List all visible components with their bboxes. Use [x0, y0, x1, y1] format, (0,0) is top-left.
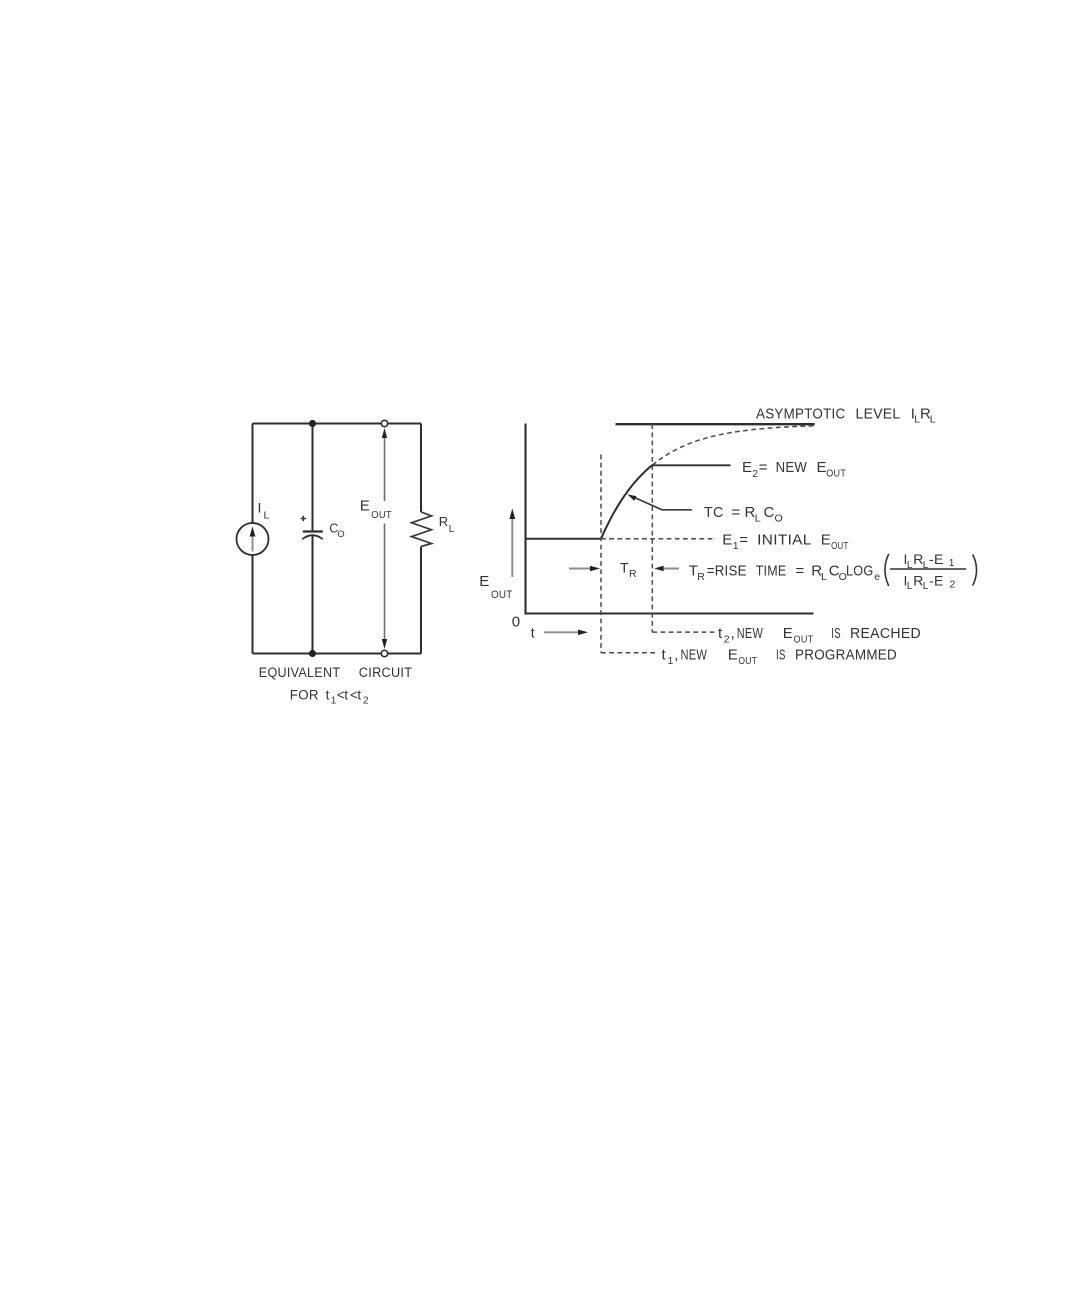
svg-text:L: L	[755, 513, 761, 525]
svg-text:R: R	[439, 514, 449, 529]
svg-text:IS: IS	[831, 625, 841, 642]
svg-text:L: L	[923, 581, 929, 592]
svg-text:L: L	[907, 581, 913, 592]
svg-text:R: R	[629, 568, 637, 580]
svg-text:1: 1	[331, 696, 337, 707]
svg-text:1: 1	[733, 540, 739, 552]
svg-text:NEW: NEW	[681, 646, 708, 663]
svg-text:T: T	[620, 560, 629, 576]
svg-text:E: E	[479, 573, 489, 590]
svg-text:,: ,	[674, 646, 678, 663]
svg-text:t: t	[662, 646, 667, 663]
svg-text:-E: -E	[929, 572, 944, 588]
svg-text:L: L	[930, 414, 936, 426]
svg-text:t: t	[357, 687, 361, 702]
svg-text:t: t	[531, 625, 535, 641]
svg-text:OUT: OUT	[738, 655, 757, 667]
svg-text:E: E	[742, 459, 752, 476]
svg-text:2: 2	[950, 578, 956, 590]
svg-text:IS: IS	[776, 646, 786, 663]
svg-text:OUT: OUT	[491, 589, 513, 601]
svg-text:ASYMPTOTIC: ASYMPTOTIC	[756, 406, 846, 423]
svg-text:R: R	[697, 571, 705, 583]
svg-text:E: E	[722, 532, 732, 549]
svg-text:t: t	[718, 625, 723, 642]
svg-text:L: L	[907, 560, 913, 571]
svg-text:E: E	[821, 532, 831, 549]
svg-text:0: 0	[512, 614, 521, 631]
svg-text:PROGRAMMED: PROGRAMMED	[795, 646, 897, 663]
svg-text:FOR: FOR	[290, 687, 319, 702]
svg-text:L: L	[923, 560, 929, 571]
svg-text:TIME: TIME	[756, 562, 787, 579]
svg-text:=RISE: =RISE	[707, 562, 747, 579]
svg-text:2: 2	[724, 634, 730, 646]
svg-text:NEW: NEW	[737, 625, 764, 642]
svg-text:EQUIVALENT: EQUIVALENT	[259, 665, 341, 680]
svg-text:O: O	[775, 513, 783, 525]
svg-text:LOG: LOG	[846, 562, 874, 579]
svg-text:L: L	[821, 571, 827, 583]
svg-text:INITIAL: INITIAL	[757, 532, 812, 549]
svg-text:TC: TC	[704, 504, 724, 521]
svg-text:=: =	[759, 459, 768, 476]
svg-text:=: =	[732, 504, 741, 521]
svg-text:t: t	[326, 687, 330, 702]
svg-text:E: E	[817, 459, 827, 476]
svg-text:L: L	[264, 510, 270, 522]
svg-text:C: C	[764, 504, 775, 521]
svg-text:=: =	[739, 532, 748, 549]
svg-text:1: 1	[668, 655, 674, 667]
svg-text:1: 1	[949, 557, 955, 569]
svg-text:OUT: OUT	[371, 509, 392, 521]
svg-text:-E: -E	[929, 551, 944, 567]
svg-text:OUT: OUT	[826, 468, 846, 480]
svg-text:LEVEL: LEVEL	[856, 406, 901, 423]
svg-text:e: e	[874, 571, 880, 583]
svg-text:E: E	[783, 625, 793, 642]
svg-text:NEW: NEW	[776, 459, 808, 476]
svg-text:2: 2	[363, 696, 369, 707]
svg-text:E: E	[360, 498, 370, 515]
svg-text:O: O	[337, 529, 345, 540]
svg-text:2: 2	[752, 468, 758, 480]
svg-text:REACHED: REACHED	[850, 625, 921, 642]
svg-text:E: E	[728, 646, 738, 663]
svg-text:=: =	[796, 562, 805, 579]
svg-text:L: L	[449, 524, 455, 535]
svg-text:I: I	[258, 500, 262, 516]
svg-text:OUT: OUT	[831, 540, 849, 552]
svg-text:,: ,	[731, 625, 735, 642]
svg-text:CIRCUIT: CIRCUIT	[359, 665, 413, 680]
svg-text:OUT: OUT	[794, 634, 814, 646]
svg-text:t: t	[344, 687, 348, 702]
